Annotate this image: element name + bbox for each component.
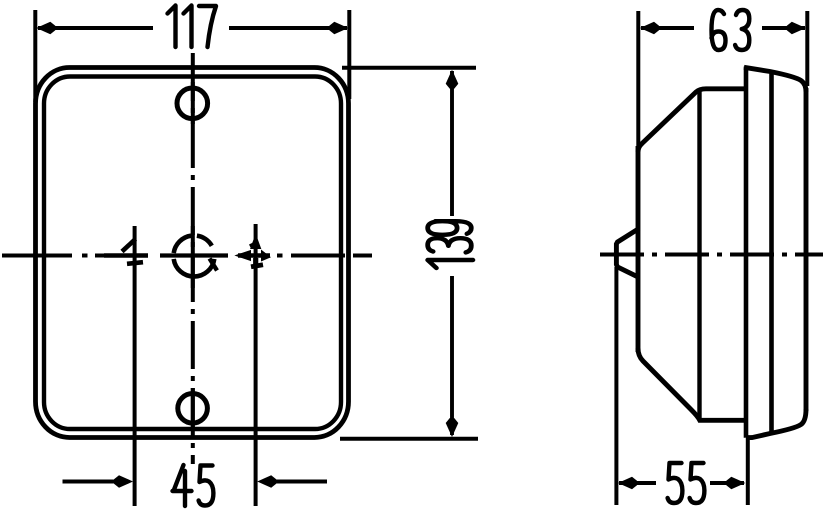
dimension 45 line right (275, 480, 327, 484)
dimension 45 arrow left (114, 475, 133, 488)
housing front edge (697, 90, 701, 419)
dimension 63 extension line left (636, 11, 640, 150)
dimension 117 arrow left (36, 22, 55, 35)
mounting hole top (177, 82, 208, 124)
lens top edge (744, 67, 806, 92)
dimension 139 arrow up (446, 70, 459, 89)
dimension 139 extension line top (342, 66, 476, 70)
lens bottom edge (746, 409, 806, 438)
front view outer outline (36, 68, 349, 438)
lens outer face (804, 88, 809, 411)
dimension 117 line (38, 26, 347, 30)
dimension 45 line left (63, 480, 117, 484)
horizontal centerline front view (2, 254, 372, 258)
dimension 55 line (619, 481, 744, 485)
housing top slant and top edge (638, 89, 747, 152)
lens seam line (769, 74, 774, 433)
dimension 139 extension line bottom (340, 437, 478, 441)
dimension 139 line (450, 71, 454, 435)
housing bottom slant and bottom edge (638, 348, 747, 420)
dimension 139 arrow down (446, 418, 459, 437)
dimension 55 extension line right (746, 438, 750, 505)
front view inner lens contour (44, 77, 341, 430)
vertical centerline front view (191, 53, 195, 464)
center target mark (160, 226, 228, 288)
dimension 45 arrow right (257, 475, 276, 488)
dimension 63 extension line right (805, 11, 809, 86)
dimension text 45 (173, 465, 214, 506)
hole position mark right (238, 237, 271, 267)
dimension 63 arrow right (787, 22, 806, 35)
dimension 55 arrow right (726, 477, 745, 490)
dimension 55 extension line left (614, 267, 618, 505)
dimension 117 extension line right (347, 10, 351, 99)
dimension 63 arrow left (640, 22, 659, 35)
dimension 117 extension line left (33, 10, 37, 102)
dimension 45 extension line left (133, 226, 137, 506)
housing back edge (636, 146, 641, 352)
dimension text 63 (712, 10, 750, 50)
dimension text 55 (668, 463, 705, 503)
mounting hole bottom (178, 388, 208, 428)
dimension 45 extension line right (254, 224, 258, 506)
dimension 117 arrow right (329, 22, 348, 35)
dimension text 139 (rotated) (428, 221, 473, 268)
dimension text 117 (168, 6, 217, 48)
mounting tab (616, 229, 639, 278)
dimension 55 arrow left (618, 477, 637, 490)
dimension 63 line (641, 26, 805, 30)
horizontal centerline side view (600, 253, 823, 257)
lens flange front edge (744, 67, 749, 438)
hole position mark left (104, 239, 148, 264)
